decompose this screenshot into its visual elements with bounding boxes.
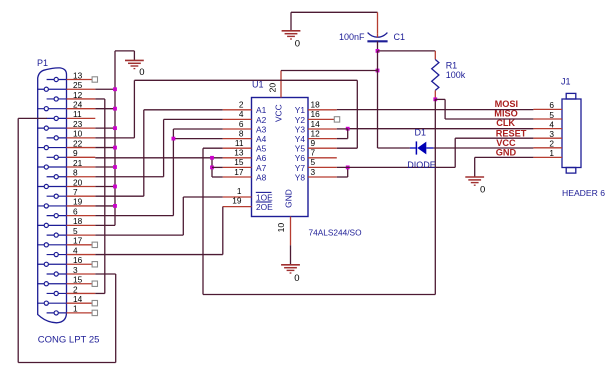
svg-text:CONG LPT 25: CONG LPT 25 [38,335,100,346]
svg-text:25: 25 [73,80,83,90]
svg-text:7: 7 [311,148,316,158]
svg-text:Y2: Y2 [295,115,306,125]
svg-text:4: 4 [549,119,554,129]
svg-text:20: 20 [73,177,83,187]
svg-text:14: 14 [73,294,83,304]
svg-text:3: 3 [73,265,78,275]
svg-text:11: 11 [73,109,82,119]
svg-text:1: 1 [549,148,554,158]
svg-text:A2: A2 [256,115,267,125]
svg-text:Y6: Y6 [295,153,306,163]
svg-text:1: 1 [237,186,242,196]
svg-text:GND: GND [496,148,517,158]
svg-text:8: 8 [239,128,244,138]
svg-text:A6: A6 [256,153,267,163]
svg-text:VCC: VCC [496,138,516,148]
svg-text:Y5: Y5 [295,144,306,154]
svg-text:6: 6 [239,119,244,129]
svg-text:A8: A8 [256,172,267,182]
svg-text:5: 5 [311,157,316,167]
svg-text:100k: 100k [446,70,466,80]
svg-text:3: 3 [549,129,554,139]
svg-text:18: 18 [311,100,321,110]
svg-text:17: 17 [234,167,244,177]
svg-text:4: 4 [239,109,244,119]
svg-text:1: 1 [73,304,78,314]
svg-text:74ALS244/SO: 74ALS244/SO [309,228,363,238]
svg-text:GND: GND [284,189,294,208]
svg-text:0: 0 [139,67,144,78]
svg-text:19: 19 [232,196,242,206]
svg-text:Y8: Y8 [295,172,306,182]
svg-text:0: 0 [295,39,300,50]
svg-text:4: 4 [73,245,78,255]
svg-text:14: 14 [311,119,321,129]
svg-text:0: 0 [480,184,485,195]
svg-text:13: 13 [234,148,244,158]
svg-text:DIODE: DIODE [407,160,436,170]
svg-text:Y7: Y7 [295,163,306,173]
svg-text:7: 7 [73,187,78,197]
svg-text:19: 19 [73,197,83,207]
svg-text:A7: A7 [256,163,267,173]
svg-text:12: 12 [73,90,83,100]
svg-text:3: 3 [311,167,316,177]
svg-text:22: 22 [73,138,83,148]
svg-text:A3: A3 [256,124,267,134]
svg-text:5: 5 [73,226,78,236]
svg-text:9: 9 [73,148,78,158]
svg-text:16: 16 [311,109,321,119]
svg-text:CLK: CLK [496,118,515,128]
svg-text:11: 11 [235,138,244,148]
svg-text:1OE: 1OE [256,192,273,202]
svg-text:21: 21 [73,158,83,168]
svg-text:A5: A5 [256,144,267,154]
svg-text:P1: P1 [37,58,48,68]
svg-text:D1: D1 [415,128,427,138]
svg-text:0: 0 [294,273,299,284]
svg-text:Y1: Y1 [295,105,306,115]
svg-text:A1: A1 [256,105,267,115]
svg-text:17: 17 [73,236,83,246]
svg-text:23: 23 [73,119,83,129]
svg-text:2OE: 2OE [256,202,273,212]
svg-text:VCC: VCC [274,104,284,122]
svg-text:10: 10 [276,223,286,233]
svg-text:2: 2 [549,139,554,149]
svg-text:HEADER 6: HEADER 6 [562,188,605,198]
svg-text:15: 15 [73,275,83,285]
svg-text:8: 8 [73,168,78,178]
svg-text:6: 6 [549,100,554,110]
svg-text:Y4: Y4 [295,134,306,144]
svg-text:Y3: Y3 [295,124,306,134]
svg-text:J1: J1 [561,77,571,87]
svg-text:15: 15 [234,157,244,167]
svg-text:10: 10 [73,129,83,139]
svg-text:18: 18 [73,216,83,226]
svg-text:2: 2 [73,284,78,294]
svg-text:12: 12 [311,128,321,138]
svg-text:MOSI: MOSI [495,99,518,109]
svg-text:R1: R1 [446,60,458,70]
svg-text:A4: A4 [256,134,267,144]
svg-text:16: 16 [73,255,83,265]
svg-text:5: 5 [549,110,554,120]
svg-text:24: 24 [73,99,83,109]
svg-text:9: 9 [311,138,316,148]
svg-text:20: 20 [268,83,278,93]
svg-text:100nF: 100nF [339,32,365,42]
svg-text:U1: U1 [252,80,264,90]
svg-text:13: 13 [73,70,83,80]
svg-text:2: 2 [239,100,244,110]
svg-text:6: 6 [73,206,78,216]
svg-text:C1: C1 [394,32,406,42]
